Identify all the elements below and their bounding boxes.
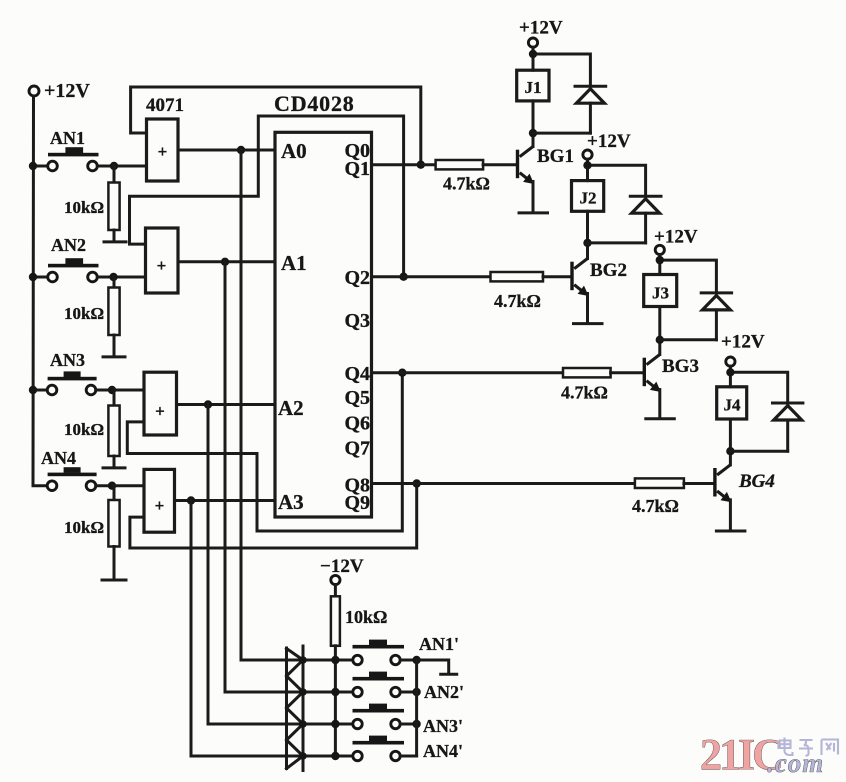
wire row AN3p [208,723,353,726]
svg-text:A0: A0 [281,139,307,163]
transistor BG1 [516,146,574,213]
or-gate U1A [147,119,179,181]
pushbutton AN4p [353,736,464,761]
svg-text:J3: J3 [652,284,669,303]
ground bar R4 [102,579,126,582]
node Q1 feedback junction [417,161,425,169]
svg-text:+: + [155,496,165,515]
logo chinese characters dian zi wang [779,738,839,756]
relay J2 [572,159,646,258]
svg-text:BG4: BG4 [738,471,775,492]
wire Q8 output [372,482,635,485]
ground BG2 [574,322,603,325]
relay J1 [517,47,591,146]
node +12V terminal J1 [519,18,563,48]
pushbutton AN2 [29,235,146,282]
node diode bar row3 [299,720,307,728]
ground BG4 [716,530,745,533]
node Q2 feedback junction [399,273,407,281]
or-gate U1B [146,228,179,293]
svg-text:AN3: AN3 [50,350,85,370]
diode D2 across J2 [630,196,661,243]
resistor 4.7k base BG1 [436,160,484,169]
svg-text:BG3: BG3 [662,356,699,377]
wire to gate 3 [96,389,144,392]
pushbutton AN3 [29,350,144,395]
svg-text:+12V: +12V [587,131,631,152]
node pull row1 [331,656,339,664]
node +12V supply terminal [29,80,90,486]
wire [33,276,48,279]
svg-text:CD4028: CD4028 [274,91,355,116]
resistor 4.7k base BG3 [563,368,611,377]
svg-text:Q9: Q9 [344,492,370,514]
wire feedback Q2 to gate2 [130,116,404,277]
node A0 junction [237,146,245,154]
svg-text:+12V: +12V [44,80,90,102]
diode stack D5-D8 [287,646,304,771]
wire row AN2p [225,691,353,694]
pushbutton AN4 [41,448,144,491]
pushbutton AN1 [29,128,147,171]
pushbutton AN1p [353,634,460,665]
node +12V terminal J2 [583,131,631,159]
node pull row4 [331,752,339,760]
svg-text:Q3: Q3 [344,310,370,332]
svg-text:J4: J4 [724,396,742,415]
node -12V terminal [320,556,364,585]
wire to BG3 base [611,371,643,374]
node pull row2 [331,688,339,696]
node button AN4 output [108,482,116,490]
wire to gate 4 [96,484,144,487]
ground BG1 [519,211,548,214]
wire feedback Q4 to gate3 [127,373,402,531]
wire A2 column down [207,405,210,725]
node diode bar row4 [299,752,307,760]
node diode bar row1 [299,656,307,664]
wire [33,165,48,168]
wire feedback Q8 to gate4 [130,484,417,549]
transistor BG4 [713,465,775,531]
node Q4 feedback junction [398,369,406,377]
svg-text:10kΩ: 10kΩ [64,198,104,217]
or-gate U1C [144,372,177,435]
wire Q1 output [372,163,436,166]
node diode bar row2 [299,688,307,696]
node +12V terminal J4 [721,332,765,367]
node button AN1 output [110,162,118,170]
pushbutton AN2p [353,672,465,702]
svg-text:J1: J1 [525,78,542,97]
svg-text:4.7kΩ: 4.7kΩ [443,174,490,194]
svg-text:AN1: AN1 [50,128,85,148]
resistor R1 10k under AN1 [64,166,126,242]
svg-text:BG2: BG2 [590,260,627,281]
svg-text:AN4': AN4' [423,741,463,761]
ground BG3 [646,417,675,420]
diode D1 across J1 [575,86,606,133]
transistor BG2 [570,259,627,324]
svg-text:AN2': AN2' [424,682,464,702]
ground bar R2 [103,355,125,358]
svg-text:−12V: −12V [320,556,364,577]
svg-text:A2: A2 [278,396,304,420]
svg-text:AN4: AN4 [41,448,76,468]
node rail junction AN2 [29,273,37,281]
svg-text:4.7kΩ: 4.7kΩ [561,383,608,403]
svg-text:J2: J2 [580,189,597,208]
svg-text:4.7kΩ: 4.7kΩ [632,496,679,516]
svg-text:Q5: Q5 [344,387,370,409]
svg-text:.com: .com [767,748,824,778]
wire A0 column down [240,150,243,660]
wire Q4 output [372,371,564,374]
wire to BG2 base [543,275,571,278]
wire right bus of primed buttons [415,660,418,756]
svg-text:AN2: AN2 [51,235,86,255]
wire A3 column down [190,501,193,757]
node A2 junction [204,400,212,408]
button contact circles [48,161,58,171]
wire left supply rail [33,96,47,486]
ground bar R3 [103,466,125,469]
svg-text:A3: A3 [278,490,304,514]
logo 21IC watermark [700,730,824,779]
svg-text:A1: A1 [281,251,307,275]
relay J3 [644,255,717,355]
wire A1 column down [224,262,227,692]
svg-text:+: + [155,402,165,421]
svg-text:+12V: +12V [519,18,563,39]
svg-text:Q7: Q7 [344,438,370,460]
wire row AN4p [191,755,353,758]
relay J4 [717,366,788,465]
svg-text:10kΩ: 10kΩ [64,304,104,323]
node button AN2 output [109,273,117,281]
svg-text:Q2: Q2 [344,267,370,289]
or-gate U1D [144,469,175,532]
resistor R4 10k under AN4 [64,486,126,580]
ground AN1p [417,660,457,674]
svg-text:10kΩ: 10kΩ [64,518,104,537]
resistor 4.7k base BG4 [635,478,684,488]
wire [33,389,47,392]
node A1 junction [221,258,229,266]
svg-text:10kΩ: 10kΩ [345,607,387,627]
wire to BG1 base [483,163,516,166]
wire to gate 1 [97,165,146,168]
resistor R5 10k pull [331,585,388,756]
diode D4 across J4 [773,403,803,451]
svg-text:4071: 4071 [146,95,184,116]
svg-text:AN1': AN1' [419,634,459,654]
+12V terminal circle [29,86,39,96]
node A3 junction [187,496,195,504]
svg-text:Q1: Q1 [344,158,370,180]
svg-text:Q4: Q4 [344,363,370,385]
pushbutton AN3p [353,704,464,736]
wire gate2 output to A1 [178,260,275,263]
resistor R3 10k under AN3 [64,390,125,468]
IC CD4028 [274,91,372,517]
svg-text:+: + [158,142,168,161]
wire gate4 output to A3 [175,499,276,502]
svg-text:+12V: +12V [721,332,765,353]
node rail junction AN1 [29,162,37,170]
resistor 4.7k base BG2 [491,272,544,281]
svg-text:10kΩ: 10kΩ [64,420,104,439]
diode D3 across J3 [701,293,731,340]
transistor BG3 [643,355,699,419]
wire gate1 output to A0 [178,149,275,152]
resistor R2 10k under AN2 [64,277,125,357]
svg-text:+: + [157,256,167,275]
svg-text:Q6: Q6 [344,413,370,435]
svg-text:BG1: BG1 [537,146,574,167]
wire Q2 output [372,275,491,278]
node rail junction AN3 [29,386,37,394]
svg-text:AN3': AN3' [423,716,463,736]
wire to gate 2 [97,276,145,279]
node button AN3 output [108,386,116,394]
node +12V terminal J3 [654,227,698,255]
node Q8 feedback junction [413,479,421,487]
wire feedback Q1 to gate1 [131,87,421,165]
button bar [48,153,99,157]
wire gate3 output to A2 [177,403,276,406]
svg-text:4.7kΩ: 4.7kΩ [494,291,541,311]
wire to BG4 base [684,482,714,485]
node pull row3 [331,720,339,728]
wire row AN1p [241,659,353,662]
ground bar R1 [104,240,126,243]
